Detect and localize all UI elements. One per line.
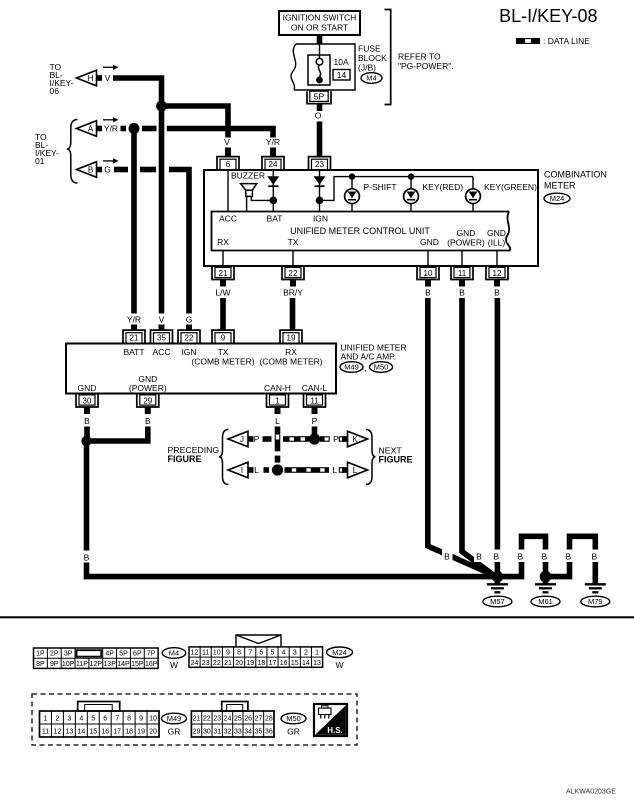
meter pin 24 connector bbox=[262, 157, 284, 170]
svg-text:12: 12 bbox=[493, 269, 502, 278]
svg-text:11: 11 bbox=[458, 269, 467, 278]
svg-text:M49: M49 bbox=[344, 363, 359, 372]
wire B: meter 12 to ground junction bbox=[495, 298, 501, 577]
connector M4 oval bbox=[361, 73, 382, 84]
wire V: junction down to amp pin 35 bbox=[159, 106, 165, 314]
wire Y/R dashed segment bbox=[121, 126, 127, 132]
connector table M24 bbox=[189, 635, 323, 667]
svg-text:B: B bbox=[88, 166, 93, 175]
wire V: junction to meter pin 6 bbox=[162, 106, 229, 138]
svg-text:(ILL): (ILL) bbox=[488, 238, 506, 248]
svg-text:16: 16 bbox=[101, 729, 109, 736]
svg-text:23: 23 bbox=[315, 160, 324, 169]
ground symbol M57 bbox=[487, 577, 508, 593]
svg-text:V: V bbox=[105, 73, 111, 83]
svg-text:14P: 14P bbox=[117, 661, 130, 668]
svg-text:6: 6 bbox=[226, 160, 231, 169]
svg-text:ALKWA0203GE: ALKWA0203GE bbox=[566, 789, 616, 796]
svg-text:KEY(RED): KEY(RED) bbox=[423, 182, 464, 192]
svg-text:4: 4 bbox=[282, 650, 286, 657]
svg-text:31: 31 bbox=[213, 729, 221, 736]
svg-text:16P: 16P bbox=[145, 661, 158, 668]
svg-text:BATT: BATT bbox=[123, 347, 144, 357]
junction node B bbox=[81, 436, 91, 446]
svg-text:ON OR START: ON OR START bbox=[291, 23, 348, 33]
lamp KEY(GREEN) bbox=[466, 177, 481, 212]
wire Y/R: junction down to amp pin 21 bbox=[131, 133, 137, 314]
lead: buzzer right terminal to BAT node bbox=[251, 196, 273, 200]
wire stubs below meter pins bbox=[223, 280, 497, 287]
wire B: junction down to ground bus bbox=[87, 441, 498, 577]
svg-text:I: I bbox=[241, 466, 243, 475]
svg-text:M4: M4 bbox=[366, 74, 376, 83]
svg-text:21: 21 bbox=[219, 269, 228, 278]
svg-text:V: V bbox=[159, 315, 165, 325]
svg-text:W: W bbox=[170, 660, 178, 670]
leads from control unit to meter pins bbox=[223, 251, 497, 267]
junction node CAN-H / P bbox=[309, 433, 320, 444]
svg-text:26: 26 bbox=[244, 716, 252, 723]
svg-text:22: 22 bbox=[203, 716, 211, 723]
ground symbol M61 bbox=[535, 577, 556, 593]
svg-text:9P: 9P bbox=[50, 661, 59, 668]
amp pin 21 connector bbox=[123, 330, 145, 343]
svg-text:B: B bbox=[591, 552, 597, 562]
svg-text:FUSE: FUSE bbox=[358, 44, 381, 54]
svg-text:15: 15 bbox=[89, 729, 97, 736]
arrow above G wire bbox=[103, 160, 114, 162]
unified meter and A/C amp box bbox=[66, 344, 336, 394]
svg-text:UNIFIED METER CONTROL UNIT: UNIFIED METER CONTROL UNIT bbox=[290, 226, 430, 236]
svg-text:1: 1 bbox=[275, 396, 280, 405]
svg-text:5P: 5P bbox=[314, 92, 325, 102]
svg-text:M4: M4 bbox=[169, 649, 179, 658]
amp pin 35 connector bbox=[151, 330, 173, 343]
svg-text:GND: GND bbox=[487, 228, 506, 238]
svg-text:IGN: IGN bbox=[313, 214, 328, 224]
svg-text:BUZZER: BUZZER bbox=[231, 171, 265, 181]
junction node IGN bbox=[316, 197, 324, 205]
svg-text:B: B bbox=[517, 552, 523, 562]
svg-text:B: B bbox=[541, 552, 547, 562]
svg-text:6: 6 bbox=[259, 650, 263, 657]
svg-text:B: B bbox=[84, 416, 90, 426]
svg-text:M24: M24 bbox=[550, 194, 565, 203]
svg-text:GR: GR bbox=[168, 727, 181, 737]
data line end window bbox=[339, 468, 344, 472]
wire G: corner down to amp pin 22 bbox=[169, 170, 189, 314]
svg-text:REFER TO: REFER TO bbox=[398, 52, 441, 62]
svg-text:2: 2 bbox=[304, 650, 308, 657]
svg-text:B: B bbox=[84, 553, 90, 563]
svg-text:11P: 11P bbox=[76, 661, 88, 668]
svg-text:B: B bbox=[476, 552, 482, 562]
svg-text:BR/Y: BR/Y bbox=[283, 288, 303, 298]
svg-text:(J/B): (J/B) bbox=[358, 63, 376, 73]
svg-text:TX: TX bbox=[288, 237, 299, 247]
svg-text:7P: 7P bbox=[147, 651, 156, 658]
svg-text:24: 24 bbox=[191, 660, 199, 667]
dashed harness view box bbox=[32, 694, 357, 745]
page link triangle H bbox=[77, 70, 103, 86]
svg-text:21: 21 bbox=[130, 333, 139, 342]
svg-text:21: 21 bbox=[224, 660, 232, 667]
svg-text:GND: GND bbox=[420, 237, 439, 247]
svg-text:10A: 10A bbox=[334, 57, 349, 67]
meter pin 6 connector bbox=[217, 157, 239, 170]
svg-text:5: 5 bbox=[271, 650, 275, 657]
wire stub into pin 6 bbox=[225, 148, 231, 158]
brace for TO BL-I/KEY-01 bbox=[67, 120, 78, 184]
svg-text:B: B bbox=[565, 552, 571, 562]
svg-text:H: H bbox=[88, 74, 94, 83]
svg-text:10: 10 bbox=[149, 716, 157, 723]
wire V: from H to junction bbox=[113, 78, 162, 106]
connector table M49 bbox=[40, 702, 160, 738]
svg-text:5P: 5P bbox=[119, 651, 128, 658]
junction node lamp bus 1 bbox=[349, 173, 355, 179]
svg-text:1: 1 bbox=[44, 716, 48, 723]
svg-text:16: 16 bbox=[280, 660, 288, 667]
page link triangle J bbox=[228, 431, 254, 447]
svg-text:5: 5 bbox=[91, 716, 95, 723]
wire into fuse bbox=[319, 44, 321, 58]
svg-text:29: 29 bbox=[193, 729, 201, 736]
svg-text:34: 34 bbox=[244, 729, 252, 736]
svg-text:RX: RX bbox=[285, 347, 297, 357]
junction node V bbox=[156, 101, 167, 112]
meter pin 10 connector bbox=[417, 266, 439, 280]
lead: pin 23 to IGN bbox=[319, 170, 321, 212]
lamp KEY(RED) bbox=[404, 177, 419, 212]
svg-text:BL-I/KEY-08: BL-I/KEY-08 bbox=[499, 6, 597, 26]
svg-text:8P: 8P bbox=[36, 661, 45, 668]
svg-text:AND A/C AMP.: AND A/C AMP. bbox=[341, 352, 397, 362]
connector table M4 bbox=[34, 648, 159, 668]
svg-text:20: 20 bbox=[149, 729, 157, 736]
pin label GND (POWER) bbox=[129, 374, 167, 393]
svg-text:33: 33 bbox=[234, 729, 242, 736]
page link triangle A bbox=[77, 121, 103, 137]
inline label B on left ground wire bbox=[81, 551, 92, 563]
junction node ground M61 bbox=[540, 571, 552, 583]
svg-text:29: 29 bbox=[143, 396, 152, 405]
CAN-H vertical data line from pin 1 bbox=[275, 427, 281, 463]
svg-text:COMBINATION: COMBINATION bbox=[544, 170, 607, 180]
svg-text:P: P bbox=[312, 416, 318, 426]
wire color labels B B B bbox=[425, 288, 500, 298]
amp pin 22 connector bbox=[178, 330, 200, 343]
lead: buzzer left terminal bbox=[246, 196, 248, 211]
svg-text:Y/R: Y/R bbox=[266, 137, 280, 147]
pin label GND (ILL) bbox=[487, 228, 506, 248]
svg-text:10: 10 bbox=[424, 269, 433, 278]
svg-text:35: 35 bbox=[157, 333, 166, 342]
connector M49 oval label bbox=[162, 713, 187, 736]
page link triangle B bbox=[77, 162, 103, 178]
svg-text:FIGURE: FIGURE bbox=[168, 454, 202, 464]
svg-text:18: 18 bbox=[257, 660, 265, 667]
svg-text:GR: GR bbox=[287, 727, 300, 737]
amp pin 9 connector bbox=[212, 330, 234, 343]
wire Y/R: to meter pin 24 bbox=[167, 129, 273, 138]
svg-text:12: 12 bbox=[191, 650, 199, 657]
svg-text:22: 22 bbox=[213, 660, 221, 667]
svg-text:CAN-H: CAN-H bbox=[264, 383, 291, 393]
wire Y/R dashed segment bbox=[142, 126, 157, 132]
pin label GND (POWER) bbox=[447, 228, 485, 248]
connector M4 oval label bbox=[162, 648, 186, 670]
svg-text:19: 19 bbox=[287, 333, 296, 342]
svg-text:(POWER): (POWER) bbox=[129, 383, 167, 393]
combination meter box bbox=[204, 170, 538, 266]
H.S. view symbol bbox=[314, 704, 347, 736]
svg-text:24: 24 bbox=[224, 716, 232, 723]
svg-text:9: 9 bbox=[226, 650, 230, 657]
svg-text:13: 13 bbox=[65, 729, 73, 736]
svg-text:10P: 10P bbox=[62, 661, 75, 668]
wire: ignition switch to fuse block bbox=[317, 35, 323, 44]
svg-text:6P: 6P bbox=[133, 651, 142, 658]
svg-text:32: 32 bbox=[224, 729, 232, 736]
svg-text:3P: 3P bbox=[64, 651, 73, 658]
wire B: loop to M79 bbox=[546, 536, 596, 583]
svg-text:M49: M49 bbox=[167, 714, 182, 723]
svg-text:BLOCK: BLOCK bbox=[358, 53, 387, 63]
fuse block (J/B) box with torn left edge bbox=[291, 44, 355, 90]
svg-text:M57: M57 bbox=[490, 597, 505, 606]
svg-text:M79: M79 bbox=[588, 597, 603, 606]
svg-text:11: 11 bbox=[310, 396, 319, 405]
svg-text:11: 11 bbox=[42, 729, 49, 736]
svg-text:14: 14 bbox=[302, 660, 310, 667]
svg-text:GND: GND bbox=[457, 228, 476, 238]
CAN-H data line (top) bbox=[263, 436, 330, 442]
amp pin 11 connector bbox=[304, 394, 326, 408]
svg-text:18: 18 bbox=[125, 729, 133, 736]
svg-text:14: 14 bbox=[337, 70, 347, 80]
svg-text:V: V bbox=[224, 137, 230, 147]
meter pin 22 connector bbox=[282, 266, 304, 280]
ground connector M57 bbox=[483, 596, 512, 607]
page link triangle L bbox=[342, 462, 368, 478]
label NEXT FIGURE bbox=[379, 446, 413, 465]
svg-text:28: 28 bbox=[265, 716, 273, 723]
svg-text:A: A bbox=[88, 125, 94, 134]
svg-text:B: B bbox=[145, 416, 151, 426]
inline labels B on ground legs bbox=[516, 550, 527, 563]
data line end window bbox=[339, 437, 344, 441]
ground connector M79 bbox=[581, 596, 610, 607]
page link triangle I bbox=[228, 462, 254, 478]
diode on IGN line bbox=[314, 176, 326, 187]
svg-text:4: 4 bbox=[79, 716, 83, 723]
svg-text:13P: 13P bbox=[103, 661, 116, 668]
svg-text:M50: M50 bbox=[374, 363, 389, 372]
svg-text:12: 12 bbox=[54, 729, 62, 736]
svg-text:21: 21 bbox=[193, 716, 201, 723]
svg-text:06: 06 bbox=[50, 86, 60, 96]
svg-text:P: P bbox=[254, 434, 260, 444]
svg-text:27: 27 bbox=[255, 716, 263, 723]
svg-text:TX: TX bbox=[218, 347, 229, 357]
amp pin 30 connector bbox=[76, 394, 98, 408]
ignition switch box bbox=[279, 11, 360, 35]
svg-text:Y/R: Y/R bbox=[127, 315, 141, 325]
meter pin 11 connector bbox=[451, 266, 473, 280]
svg-text:ACC: ACC bbox=[153, 347, 171, 357]
svg-text:K: K bbox=[352, 435, 358, 444]
CAN-L vertical data line from pin 11 bbox=[312, 427, 318, 435]
svg-text:METER: METER bbox=[544, 181, 576, 191]
arrow above Y/R wire bbox=[103, 119, 114, 121]
wire O: 5P to meter pin 23 bbox=[317, 122, 323, 158]
svg-text:3: 3 bbox=[67, 716, 71, 723]
svg-text:CAN-L: CAN-L bbox=[302, 383, 328, 393]
separator rule bbox=[0, 616, 634, 618]
svg-text:30: 30 bbox=[83, 396, 92, 405]
svg-text:22: 22 bbox=[185, 333, 194, 342]
label PRECEDING FIGURE bbox=[168, 445, 220, 464]
label UNIFIED METER AND A/C AMP M49 M50 bbox=[341, 343, 407, 362]
ground symbol M79 bbox=[585, 584, 606, 592]
svg-text:M24: M24 bbox=[332, 648, 347, 657]
arrow above V wire bbox=[103, 66, 114, 68]
label COMBINATION METER M24 bbox=[544, 170, 607, 191]
wire stubs below amp pins bbox=[87, 407, 315, 414]
junction node lamp bus 2 bbox=[408, 173, 414, 179]
svg-text:B: B bbox=[493, 552, 499, 562]
svg-text:L/W: L/W bbox=[215, 288, 230, 298]
wire BR/Y: meter 22 to amp 19 bbox=[290, 298, 296, 330]
svg-text:4P: 4P bbox=[105, 651, 114, 658]
label TO BL-I/KEY-06 bbox=[50, 62, 74, 96]
svg-text:B: B bbox=[425, 288, 431, 298]
svg-text:2P: 2P bbox=[50, 651, 59, 658]
svg-text:B: B bbox=[459, 288, 465, 298]
svg-text:,: , bbox=[364, 363, 366, 373]
svg-text:: DATA LINE: : DATA LINE bbox=[543, 36, 590, 46]
label TO BL-I/KEY-01 bbox=[35, 132, 59, 166]
svg-text:9: 9 bbox=[139, 716, 143, 723]
legend: data line sample bbox=[516, 36, 590, 46]
svg-text:2: 2 bbox=[55, 716, 59, 723]
svg-text:(COMB METER): (COMB METER) bbox=[259, 357, 322, 367]
buzzer symbol bbox=[241, 184, 257, 197]
fuse F14 10A symbol bbox=[308, 55, 330, 85]
svg-text:(POWER): (POWER) bbox=[447, 238, 485, 248]
svg-text:H.S.: H.S. bbox=[327, 726, 343, 735]
labels B on diagonal wires bbox=[442, 550, 453, 563]
svg-text:36: 36 bbox=[265, 729, 273, 736]
svg-text:KEY(GREEN): KEY(GREEN) bbox=[484, 182, 537, 192]
svg-text:24: 24 bbox=[269, 160, 278, 169]
brace preceding figure bbox=[219, 430, 229, 485]
svg-text:J: J bbox=[240, 435, 244, 444]
junction node CAN-L / L bbox=[272, 464, 283, 475]
svg-text:1: 1 bbox=[315, 650, 319, 657]
svg-text:P: P bbox=[333, 434, 339, 444]
junction node Y/R bbox=[129, 123, 140, 134]
meter pin 23 connector bbox=[309, 157, 331, 170]
svg-text:ACC: ACC bbox=[219, 214, 237, 224]
junction node ground M57 bbox=[492, 571, 504, 583]
svg-text:P-SHIFT: P-SHIFT bbox=[364, 182, 397, 192]
svg-text:GND: GND bbox=[78, 383, 97, 393]
wire stub below 5P bbox=[317, 104, 323, 111]
svg-text:19: 19 bbox=[246, 660, 254, 667]
svg-text:Y/R: Y/R bbox=[104, 124, 118, 134]
svg-text:19: 19 bbox=[137, 729, 145, 736]
page link triangle K bbox=[342, 431, 368, 447]
connector 5P bbox=[307, 91, 331, 103]
fuse number 14 box bbox=[333, 70, 350, 81]
svg-text:17: 17 bbox=[113, 729, 121, 736]
svg-text:10: 10 bbox=[213, 650, 221, 657]
svg-text:7: 7 bbox=[248, 650, 252, 657]
wire B: pin29 to junction bbox=[89, 427, 148, 442]
svg-text:FIGURE: FIGURE bbox=[379, 455, 413, 465]
wire B: meter 11 to ground junction bbox=[462, 298, 495, 576]
svg-text:20: 20 bbox=[235, 660, 243, 667]
svg-text:14: 14 bbox=[77, 729, 85, 736]
svg-text:W: W bbox=[335, 660, 343, 670]
svg-text:G: G bbox=[104, 165, 111, 175]
svg-text:RX: RX bbox=[217, 237, 229, 247]
svg-text:9: 9 bbox=[221, 333, 226, 342]
amp pin 19 connector bbox=[280, 330, 302, 343]
svg-text:G: G bbox=[186, 315, 193, 325]
svg-text:8: 8 bbox=[127, 716, 131, 723]
svg-text:13: 13 bbox=[313, 660, 321, 667]
CAN-L data line (bottom) bbox=[264, 467, 330, 473]
svg-text:L: L bbox=[353, 466, 358, 475]
lead: IGN to lamp bus bbox=[320, 177, 474, 201]
svg-text:15P: 15P bbox=[131, 661, 144, 668]
label FUSE BLOCK (J/B) bbox=[358, 44, 387, 73]
svg-text:8: 8 bbox=[237, 650, 241, 657]
amp pin 29 connector bbox=[137, 394, 159, 408]
svg-text:"PG-POWER".: "PG-POWER". bbox=[398, 61, 454, 71]
svg-text:23: 23 bbox=[213, 716, 221, 723]
svg-text:L: L bbox=[254, 465, 259, 475]
svg-text:15: 15 bbox=[291, 660, 299, 667]
ground connector M61 bbox=[531, 596, 560, 607]
svg-text:(COMB METER): (COMB METER) bbox=[191, 357, 254, 367]
svg-text:23: 23 bbox=[202, 660, 210, 667]
pin label RX (COMB METER) bbox=[259, 347, 322, 367]
svg-text:17: 17 bbox=[269, 660, 277, 667]
unified meter control unit box (torn right edge) bbox=[212, 212, 511, 251]
connector M24 oval label bbox=[327, 647, 353, 670]
svg-text:01: 01 bbox=[35, 156, 45, 166]
diode on BAT line bbox=[267, 176, 279, 187]
svg-text:25: 25 bbox=[234, 716, 242, 723]
svg-text:M50: M50 bbox=[286, 714, 301, 723]
svg-text:L: L bbox=[275, 416, 280, 426]
svg-text:22: 22 bbox=[289, 269, 298, 278]
svg-text:IGN: IGN bbox=[181, 347, 196, 357]
wire G dashed segments bbox=[114, 167, 128, 173]
svg-text:35: 35 bbox=[255, 729, 263, 736]
meter pin 21 connector bbox=[212, 266, 234, 280]
svg-text:O: O bbox=[315, 111, 322, 121]
svg-text:IGNITION SWITCH: IGNITION SWITCH bbox=[283, 13, 357, 23]
svg-text:30: 30 bbox=[203, 729, 211, 736]
amp pin 1 connector bbox=[267, 394, 289, 408]
svg-text:12P: 12P bbox=[90, 661, 103, 668]
wire B: loop to M61 bbox=[497, 536, 545, 576]
